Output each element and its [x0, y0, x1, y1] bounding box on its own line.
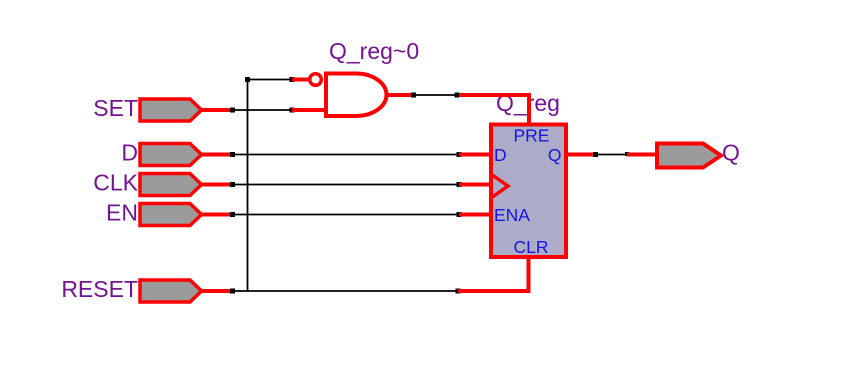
wire RESET horizontal	[230, 289, 461, 294]
wire NAND output to DFF PRE	[387, 93, 530, 125]
wire EN to DFF ENA	[230, 212, 490, 217]
input pin CLK	[93, 170, 233, 196]
svg-text:Q_reg~0: Q_reg~0	[329, 38, 419, 64]
red wire RESET to CLR	[458, 257, 529, 291]
DFF Q_reg	[491, 125, 566, 258]
output pin Q	[657, 140, 740, 168]
svg-text:Q: Q	[722, 140, 740, 166]
svg-text:D: D	[494, 145, 507, 165]
wire DFF Q to output pin	[567, 152, 657, 157]
input pin EN	[106, 200, 233, 226]
svg-text:ENA: ENA	[494, 205, 530, 225]
svg-text:CLR: CLR	[513, 237, 548, 257]
input pin D	[121, 140, 233, 166]
svg-text:SET: SET	[93, 95, 138, 121]
svg-text:Q: Q	[548, 145, 562, 165]
wire RESET branch vertical to NAND	[245, 77, 308, 291]
svg-text:PRE: PRE	[514, 126, 550, 146]
wire SET to NAND input	[230, 108, 326, 113]
NAND gate Q_reg~0	[310, 38, 419, 116]
svg-text:D: D	[121, 140, 138, 166]
svg-text:EN: EN	[106, 200, 138, 226]
svg-text:RESET: RESET	[61, 276, 138, 302]
input pin SET	[93, 95, 233, 121]
wire D to DFF	[230, 152, 490, 157]
svg-text:CLK: CLK	[93, 170, 138, 196]
wire CLK to DFF clock	[230, 182, 490, 187]
input pin RESET	[61, 276, 233, 302]
